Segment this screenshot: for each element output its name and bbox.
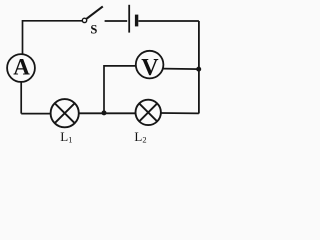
wire switch to battery bbox=[105, 20, 128, 22]
node junction mid (lamps / voltmeter tap) bbox=[102, 110, 107, 115]
wire bottom-left to lamp L1 bbox=[21, 113, 50, 115]
wire battery to top-right corner bbox=[138, 20, 199, 22]
svg-text:A: A bbox=[13, 54, 30, 79]
wire lamp L2 to bottom-right corner bbox=[161, 112, 199, 114]
switch S blade (open) bbox=[86, 6, 103, 19]
lamp L1 bbox=[51, 99, 79, 127]
switch S hinge terminal bbox=[82, 18, 86, 22]
svg-text:L1: L1 bbox=[60, 129, 72, 145]
wire voltmeter to right rail bbox=[163, 68, 199, 71]
node junction right (voltmeter / right rail) bbox=[196, 67, 201, 72]
wire right rail bbox=[198, 21, 200, 114]
svg-text:S: S bbox=[90, 22, 97, 36]
svg-text:L2: L2 bbox=[134, 129, 146, 145]
wire lamp L1 to lamp L2 through junction bbox=[79, 112, 136, 114]
battery short plate bbox=[135, 15, 138, 27]
battery long plate bbox=[128, 5, 130, 33]
wire top-left segment bbox=[23, 21, 83, 55]
svg-text:V: V bbox=[141, 55, 159, 81]
wire mid rail to voltmeter bbox=[104, 66, 136, 113]
ammeter A1 bbox=[7, 54, 35, 82]
lamp L2 bbox=[136, 100, 161, 125]
wire ammeter to bottom-left corner bbox=[20, 82, 22, 114]
voltmeter V1 bbox=[136, 51, 164, 81]
